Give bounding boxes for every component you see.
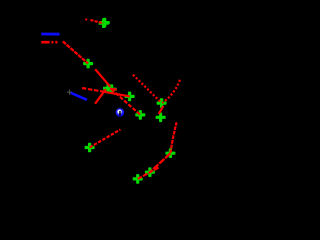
black notch in blue dot (119, 111, 121, 116)
dashed edge D to N1 (90, 20, 103, 23)
red legend dashed sample (41, 41, 57, 44)
node N7 (165, 148, 175, 158)
node M1 (83, 59, 93, 69)
dotted edge D1 to N5 (133, 75, 162, 103)
edge N5 to N6 (159, 106, 164, 114)
blue trajectory segment (71, 93, 87, 100)
edge N11 up-right (90, 130, 121, 148)
gray plus marker (67, 90, 72, 95)
dashed edge D start dot (85, 18, 87, 20)
edge N7 to N9 (150, 153, 170, 172)
blue dot marker (116, 108, 125, 117)
edge junction to L (111, 89, 140, 115)
blue legend sample line (41, 33, 59, 36)
edge junction down-left (95, 89, 106, 104)
node N5 (157, 98, 167, 108)
curved edge above N7 (171, 122, 177, 153)
dotted edge D2 to N5 (162, 80, 180, 103)
edge H to R (103, 92, 130, 97)
node Pa (junction) (103, 84, 113, 94)
node N11 (85, 143, 95, 153)
dashed edge H left part (82, 88, 103, 92)
red lines (41, 18, 180, 179)
node N10 (133, 174, 143, 184)
short junction streak (110, 88, 117, 91)
edge N9 to N10 (138, 168, 159, 179)
edge M1 to junction (95, 69, 110, 87)
node Pb (junction) (107, 84, 117, 94)
node N6 (156, 113, 166, 123)
node N9 (145, 167, 155, 177)
node N1 (99, 18, 109, 28)
green point markers (nodes) (83, 18, 175, 184)
node L (135, 110, 145, 120)
node R (125, 92, 135, 102)
dashed edge C to M1 (63, 41, 88, 63)
